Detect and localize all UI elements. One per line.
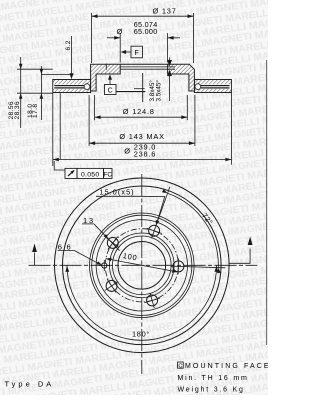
dim D143 MAX bbox=[89, 95, 195, 146]
svg-text:Ø 143 MAX: Ø 143 MAX bbox=[119, 132, 164, 141]
circle D137 bbox=[92, 215, 192, 315]
dim 100 bolt circle bbox=[106, 259, 178, 272]
section: right braking band bbox=[194, 80, 231, 93]
svg-text:Min. TH 16 mm: Min. TH 16 mm bbox=[178, 375, 249, 382]
note C MOUNTING FACE bbox=[178, 362, 184, 368]
circle D124.8 bbox=[96, 220, 187, 311]
horizontal centerline bbox=[29, 264, 258, 266]
svg-text:6.6: 6.6 bbox=[58, 242, 72, 251]
svg-text:Ø: Ø bbox=[117, 27, 123, 36]
svg-text:28.36: 28.36 bbox=[14, 101, 21, 120]
frame right edge bbox=[265, 60, 268, 345]
bolt holes D15 x5 bbox=[147, 223, 162, 238]
section: hat right wall and plate (chamfered corner) bbox=[168, 64, 195, 91]
datum C box bbox=[105, 85, 117, 95]
section: small tick on face bbox=[105, 64, 107, 70]
svg-text:0.050: 0.050 bbox=[81, 172, 100, 179]
bolt circle D100 dash-dot bbox=[105, 229, 178, 302]
bore D65 bbox=[118, 241, 166, 289]
svg-text:3.5x45°: 3.5x45° bbox=[155, 80, 163, 102]
hole 6.6 bbox=[99, 260, 110, 271]
svg-text:13: 13 bbox=[83, 216, 95, 225]
svg-text:65.000: 65.000 bbox=[134, 27, 158, 36]
svg-text:Ø: Ø bbox=[124, 146, 130, 155]
dim 28.56/28.36 bbox=[17, 57, 53, 128]
section: hat left wall and plate bbox=[91, 64, 121, 91]
circle 180deg ring bbox=[63, 186, 222, 345]
left position marker bbox=[34, 253, 36, 266]
right position marker bbox=[229, 249, 251, 264]
outer circle D239 bbox=[55, 178, 230, 353]
section: left braking band bbox=[53, 80, 91, 93]
circle D143 bbox=[90, 213, 195, 318]
dim D124.8 bbox=[95, 95, 188, 120]
svg-text:180°: 180° bbox=[132, 330, 150, 339]
svg-text:6.2: 6.2 bbox=[65, 40, 72, 50]
svg-text:Ø 137: Ø 137 bbox=[153, 6, 177, 15]
datum F box bbox=[131, 46, 143, 58]
svg-text:MOUNTING FACE: MOUNTING FACE bbox=[185, 363, 268, 370]
dim 72deg bbox=[168, 193, 219, 267]
dim 6.2 bbox=[71, 36, 73, 74]
dim 18.0/17.8 bbox=[41, 66, 73, 120]
svg-text:C: C bbox=[108, 88, 113, 95]
dim D239.0/238.6 bbox=[53, 93, 232, 167]
hub circles bbox=[110, 233, 175, 298]
svg-text:Type DA: Type DA bbox=[5, 380, 55, 389]
dim chamfer 3.8x45 3.5x45 bbox=[169, 58, 171, 62]
svg-text:FC: FC bbox=[104, 171, 113, 178]
svg-text:F: F bbox=[135, 50, 139, 57]
svg-text:238.6: 238.6 bbox=[134, 149, 157, 158]
dim D137 bbox=[92, 13, 194, 63]
dim D65.074/65.000 bbox=[107, 33, 180, 63]
svg-text:C: C bbox=[178, 363, 182, 369]
svg-text:15.0(x5): 15.0(x5) bbox=[100, 188, 135, 197]
extra ext line x60 bbox=[59, 93, 61, 159]
section: bore lines bbox=[120, 63, 167, 65]
svg-text:17.8: 17.8 bbox=[32, 104, 39, 118]
vertical centerline bbox=[141, 174, 143, 374]
section: center mark and C leader right bbox=[142, 73, 144, 102]
svg-text:Weight 3.6 Kg: Weight 3.6 Kg bbox=[178, 387, 245, 394]
feature control frame 0.050 FC bbox=[65, 168, 112, 178]
svg-text:Ø 124.8: Ø 124.8 bbox=[123, 107, 155, 116]
